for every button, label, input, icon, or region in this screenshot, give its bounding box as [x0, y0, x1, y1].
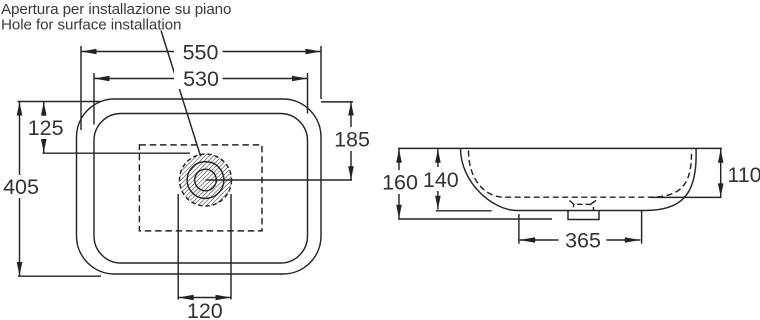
svg-text:185: 185 — [334, 128, 370, 152]
svg-text:365: 365 — [565, 229, 601, 253]
svg-text:140: 140 — [423, 168, 459, 192]
svg-text:405: 405 — [3, 175, 39, 199]
svg-text:530: 530 — [183, 67, 219, 91]
svg-text:125: 125 — [28, 116, 64, 140]
svg-text:160: 160 — [382, 171, 418, 195]
svg-text:Hole for surface installation: Hole for surface installation — [1, 17, 181, 34]
svg-text:Apertura per installazione su: Apertura per installazione su piano — [1, 1, 231, 18]
svg-text:550: 550 — [183, 41, 219, 65]
svg-text:110: 110 — [727, 163, 760, 187]
svg-text:120: 120 — [187, 299, 223, 320]
